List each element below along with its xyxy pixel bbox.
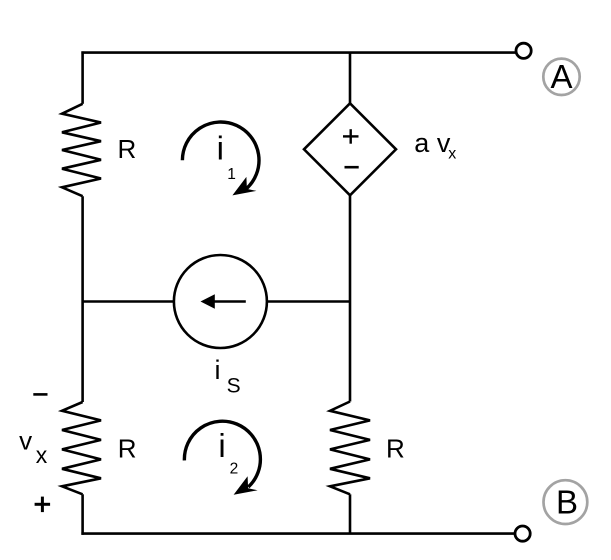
wire top rail [81, 51, 516, 54]
vx polarity plus [35, 497, 51, 512]
svg-text:R: R [118, 434, 137, 464]
wire right branch bottom [349, 494, 352, 533]
wire left rail middle [81, 196, 84, 402]
dependent source polarity plus [343, 129, 359, 144]
svg-text:x: x [36, 442, 48, 468]
wire right branch upper [349, 195, 352, 402]
resistor R (bottom left) [62, 402, 101, 494]
svg-text:S: S [227, 375, 241, 398]
wire middle right segment [267, 300, 351, 303]
svg-text:i: i [218, 427, 225, 464]
wire bottom rail [81, 532, 515, 535]
svg-text:1: 1 [227, 166, 236, 183]
resistor R (bottom right) [330, 402, 370, 495]
wire left rail upper [81, 51, 84, 103]
svg-text:i: i [215, 355, 221, 385]
svg-text:a v: a v [414, 128, 451, 158]
label a vx [414, 128, 456, 162]
resistor R (top left) [62, 104, 101, 196]
label vx [19, 425, 48, 468]
svg-text:x: x [448, 145, 456, 162]
node A label circle [543, 58, 579, 95]
wire middle left segment [83, 300, 175, 303]
mesh current arrow i2 [184, 421, 260, 495]
terminal node A open circle [516, 43, 531, 58]
terminal node B open circle [515, 526, 530, 541]
mesh current arrow i1 [182, 122, 259, 195]
dependent source polarity minus [345, 166, 359, 169]
svg-text:R: R [118, 134, 137, 164]
svg-text:i: i [217, 130, 224, 167]
dependent source a vx diamond [304, 103, 396, 195]
label i1 [217, 130, 236, 183]
svg-text:B: B [556, 484, 578, 521]
current source iS circle [174, 255, 267, 348]
vx polarity minus [33, 393, 47, 396]
current source iS arrow [201, 294, 246, 309]
label i2 [218, 427, 238, 478]
label iS [215, 355, 241, 398]
wire stub to dependent source top [349, 53, 352, 104]
svg-text:v: v [19, 425, 32, 455]
svg-text:R: R [386, 434, 405, 464]
svg-text:2: 2 [230, 461, 239, 478]
svg-text:A: A [550, 58, 572, 95]
wire left rail bottom [81, 494, 84, 535]
node B label circle [544, 480, 588, 524]
